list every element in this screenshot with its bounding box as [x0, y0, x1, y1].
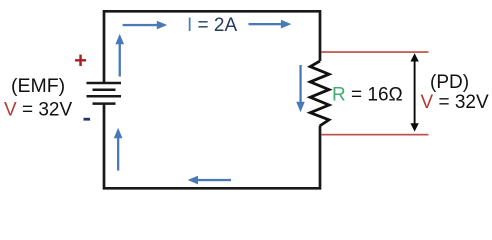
red PD reference line bottom: [321, 134, 429, 136]
battery V1 plate long top (+): [87, 82, 122, 85]
wire: top + left upper segment to battery: [104, 11, 320, 83]
current arrow top-right (right): [249, 20, 292, 29]
svg-text:(EMF): (EMF): [11, 75, 65, 97]
current arrow bottom (left): [188, 176, 231, 185]
current arrow left-lower (up): [114, 128, 123, 171]
svg-text:+: +: [74, 48, 87, 73]
current arrow left-upper (up): [115, 34, 124, 77]
red PD reference line top: [322, 51, 429, 53]
current arrow top-left (right): [123, 21, 168, 30]
svg-text:(PD): (PD): [430, 72, 469, 93]
svg-text:V = 32V: V = 32V: [4, 100, 72, 121]
wire: bottom + left lower segment from battery, right lower from resistor: [104, 104, 320, 189]
battery minus terminal label: [84, 118, 91, 121]
battery V1 plate short: [93, 89, 116, 92]
svg-text:I = 2A: I = 2A: [187, 15, 238, 36]
svg-text:R = 16Ω: R = 16Ω: [332, 85, 403, 106]
current arrow through resistor (down): [296, 65, 305, 112]
svg-text:V = 32V: V = 32V: [421, 92, 489, 113]
battery V1 plate short bottom (-): [93, 102, 116, 105]
battery V1 plate long: [87, 95, 122, 98]
PD double-headed arrow: [410, 53, 418, 131]
resistor R zigzag: [310, 61, 329, 126]
